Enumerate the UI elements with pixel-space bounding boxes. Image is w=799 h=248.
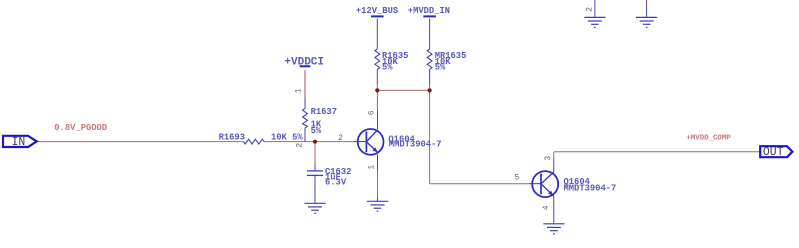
svg-text:IN: IN <box>12 136 26 149</box>
svg-text:+MVDD_COMP: +MVDD_COMP <box>686 135 731 143</box>
svg-text:3: 3 <box>544 156 553 161</box>
svg-text:4: 4 <box>542 205 551 210</box>
svg-text:10K 5%: 10K 5% <box>271 132 303 142</box>
svg-text:5%: 5% <box>311 126 322 136</box>
svg-text:0.8V_PGOOD: 0.8V_PGOOD <box>54 123 107 133</box>
svg-text:5: 5 <box>515 173 520 182</box>
svg-text:2: 2 <box>295 143 304 148</box>
svg-text:6: 6 <box>368 110 377 115</box>
svg-text:R1693: R1693 <box>219 132 245 142</box>
svg-text:5%: 5% <box>435 63 446 73</box>
svg-text:+MVDD_IN: +MVDD_IN <box>408 6 450 16</box>
svg-text:MMDT3904-7: MMDT3904-7 <box>389 139 442 149</box>
svg-text:R1637: R1637 <box>311 107 337 117</box>
svg-text:2: 2 <box>585 7 594 12</box>
svg-text:1: 1 <box>295 88 304 93</box>
svg-text:OUT: OUT <box>763 146 784 159</box>
svg-text:MMDT3904-7: MMDT3904-7 <box>564 184 617 194</box>
svg-text:6.3V: 6.3V <box>325 178 347 188</box>
svg-text:1: 1 <box>368 165 377 170</box>
svg-text:+12V_BUS: +12V_BUS <box>356 6 398 16</box>
svg-text:2: 2 <box>338 134 343 143</box>
svg-text:5%: 5% <box>382 63 393 73</box>
svg-text:+VDDCI: +VDDCI <box>284 56 324 68</box>
